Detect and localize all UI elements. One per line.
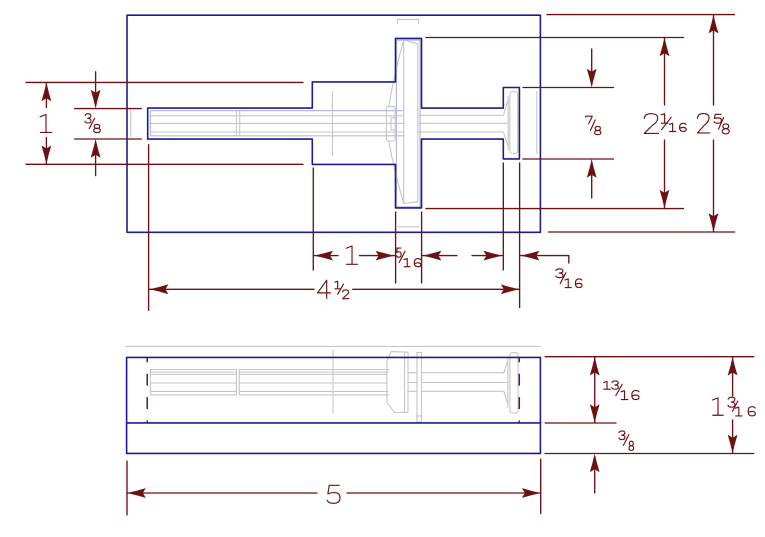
slot opening mark at top face: [397, 19, 419, 22]
screw head cone: [504, 100, 508, 147]
dimension line 1 (left): [45, 82, 47, 164]
extension lines 13/16 and 3/8 (bottom view): [545, 357, 754, 454]
text 3/8 (left): [85, 114, 100, 133]
text 3/8 (bottom view): [619, 431, 634, 450]
slot opening mark at bottom face: [398, 226, 420, 228]
extension line dim 1 (row) left: [312, 168, 314, 270]
dimension line 13/16: [594, 357, 596, 423]
knob disc faces: [404, 40, 418, 204]
centre mark line: [332, 92, 334, 156]
extension lines 2 1/16: [426, 38, 684, 209]
knob hub: [386, 106, 395, 141]
dimension line 2 5/8: [713, 15, 715, 232]
milled cavity profile, top view: [148, 38, 520, 208]
screw head left face: [507, 97, 509, 150]
washer slot inner highlight: [150, 40, 420, 207]
thread/shank junction: [236, 111, 239, 136]
text 2 5/8: [697, 114, 729, 134]
shaft lines to head: [422, 373, 508, 392]
hidden hole end at left wall: [130, 110, 132, 138]
extension lines for dim 3/8 (left): [75, 109, 142, 139]
hidden line beyond head: [536, 92, 538, 154]
screw threaded shank lines: [150, 370, 236, 395]
dimension line 1 (row): [314, 255, 394, 257]
dimension line 4 1/2: [150, 288, 520, 290]
thread/shank junction: [237, 370, 240, 395]
screw shank lines to knob: [239, 370, 389, 395]
washer disc: [417, 352, 422, 422]
screw left end cap: [149, 370, 151, 395]
hidden slot right edge: [518, 358, 520, 423]
screw body outline (light): [150, 111, 403, 136]
knob hub inner step: [391, 118, 395, 130]
extension lines dim 5: [127, 459, 541, 515]
text 1 3/16: [712, 397, 755, 416]
extension lines 3/16: [503, 163, 519, 308]
lines between knob and washer: [408, 373, 417, 392]
text 7/8: [586, 116, 601, 134]
dimension arrow 3/8 (bottom view): [594, 470, 596, 493]
text 3/16 (top): [556, 269, 582, 288]
dimension line 5: [127, 492, 541, 494]
dimension line 1 3/16: [732, 357, 734, 454]
screw thread inner lines: [150, 116, 403, 132]
top face line: [126, 345, 541, 347]
extension lines 2 5/8: [547, 15, 735, 232]
extension line 4 1/2 left: [148, 145, 150, 311]
part boundary, top view: [127, 15, 540, 232]
extension lines 5/16: [396, 212, 422, 283]
knob body face line: [404, 352, 406, 412]
shaft lines right of knob: [418, 115, 507, 132]
dimension arrows 3/8 (left): [95, 72, 97, 176]
head cone: [504, 361, 508, 405]
text 2 1/16: [644, 114, 686, 134]
screw head: [510, 353, 518, 413]
dimension arrows 7/8: [591, 49, 593, 198]
knob disc top and bottom edges: [404, 40, 418, 204]
washer disc shelf line: [416, 415, 422, 417]
text 5/16: [396, 248, 420, 267]
knob cone face upper: [389, 40, 404, 106]
centre mark line (bottom view): [332, 351, 334, 414]
dimension arrow 3/16: [521, 256, 569, 263]
knob body outline: [387, 352, 408, 413]
text 1 (row): [346, 246, 357, 264]
slot floor edge, bottom view: [127, 422, 541, 424]
text 5 (bottom view): [327, 485, 340, 503]
dimension line between slot and head slot: [423, 255, 503, 257]
extension lines 7/8: [523, 88, 614, 160]
hidden cavity left end: [146, 358, 148, 423]
text 4 1/2: [318, 280, 349, 299]
text 1 (left): [40, 115, 51, 133]
extension lines for dim 1 (left): [26, 82, 303, 164]
screw head: [510, 92, 518, 154]
knob cone face lower: [389, 141, 404, 204]
part boundary, bottom view: [127, 357, 541, 453]
text 13/16 (bottom view): [604, 381, 639, 400]
head left face: [507, 359, 509, 408]
dimension line 2 1/16: [664, 38, 666, 209]
